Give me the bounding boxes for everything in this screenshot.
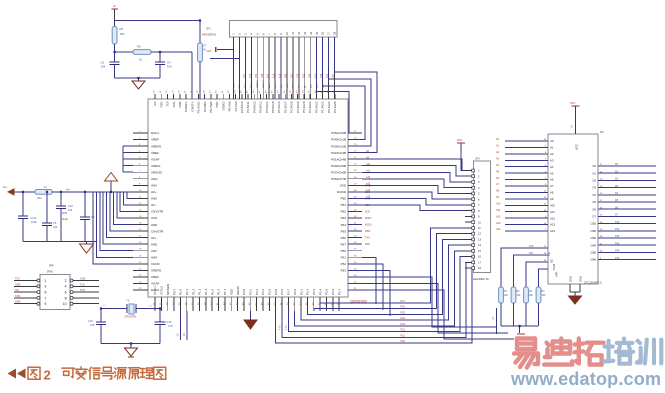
svg-text:TDI: TDI bbox=[239, 84, 241, 88]
svg-text:P3.5A11: P3.5A11 bbox=[246, 101, 250, 113]
svg-text:P2.2: P2.2 bbox=[306, 288, 310, 295]
svg-text:P01ACh4B: P01ACh4B bbox=[331, 157, 346, 161]
svg-text:HEADER11: HEADER11 bbox=[202, 33, 217, 37]
svg-text:P00ACh5B: P00ACh5B bbox=[331, 164, 346, 168]
svg-text:A12: A12 bbox=[496, 215, 501, 218]
svg-text:CNVSTR: CNVSTR bbox=[151, 210, 164, 214]
svg-text:P14: P14 bbox=[243, 73, 246, 78]
svg-text:1K: 1K bbox=[139, 58, 143, 62]
svg-text:P3.5: P3.5 bbox=[274, 288, 278, 295]
svg-text:OE: OE bbox=[550, 259, 554, 263]
svg-text:P0.6A8: P0.6A8 bbox=[228, 101, 232, 111]
svg-text:P36: P36 bbox=[261, 73, 264, 78]
svg-text:P1.4A23: P1.4A23 bbox=[321, 101, 325, 113]
svg-text:+C12: +C12 bbox=[30, 216, 37, 220]
svg-text:VDD: VDD bbox=[215, 101, 219, 108]
svg-text:P06ACh7B: P06ACh7B bbox=[331, 177, 346, 181]
svg-text:U7: U7 bbox=[600, 130, 604, 134]
svg-text:CB4: CB4 bbox=[591, 243, 597, 247]
svg-text:VCC: VCC bbox=[570, 102, 575, 105]
svg-text:P42: P42 bbox=[615, 235, 620, 238]
svg-text:P1.7: P1.7 bbox=[223, 288, 227, 295]
svg-text:JP5: JP5 bbox=[475, 157, 480, 161]
svg-text:A4: A4 bbox=[550, 165, 554, 169]
svg-text:P66: P66 bbox=[341, 236, 347, 240]
svg-text:TCK: TCK bbox=[15, 278, 20, 281]
svg-text:C15: C15 bbox=[88, 319, 93, 323]
svg-text:WR: WR bbox=[281, 84, 283, 88]
svg-text:P51: P51 bbox=[341, 255, 347, 259]
svg-text:P6.5A14: P6.5A14 bbox=[265, 101, 269, 113]
svg-text:A13: A13 bbox=[366, 183, 371, 186]
svg-text:P37: P37 bbox=[332, 73, 335, 78]
svg-text:P15: P15 bbox=[296, 73, 299, 78]
svg-text:P4.5A12: P4.5A12 bbox=[252, 101, 256, 113]
svg-text:O0: O0 bbox=[592, 164, 596, 168]
svg-text:P2.5: P2.5 bbox=[325, 288, 329, 295]
svg-text:DGND: DGND bbox=[221, 101, 225, 111]
svg-text:MISO: MISO bbox=[365, 217, 371, 220]
svg-text:O2: O2 bbox=[592, 179, 596, 183]
svg-text:DGND: DGND bbox=[337, 190, 347, 194]
svg-text:AN4: AN4 bbox=[151, 184, 157, 188]
svg-text:GND: GND bbox=[15, 301, 21, 304]
svg-text:P5.5A13: P5.5A13 bbox=[259, 101, 263, 113]
svg-text:VRGND: VRGND bbox=[151, 170, 163, 174]
svg-text:ANG: ANG bbox=[151, 177, 158, 181]
svg-text:TDO: TDO bbox=[80, 289, 85, 292]
svg-text:10K: 10K bbox=[542, 295, 547, 297]
svg-text:R6: R6 bbox=[137, 45, 141, 49]
svg-text:VGAP: VGAP bbox=[151, 157, 159, 161]
svg-text:P0.4A22: P0.4A22 bbox=[314, 101, 318, 113]
svg-text:P2.7: P2.7 bbox=[337, 288, 341, 295]
svg-text:P3.6: P3.6 bbox=[280, 288, 284, 295]
svg-text:P26: P26 bbox=[401, 306, 406, 309]
svg-text:P62: P62 bbox=[341, 210, 347, 214]
svg-text:P05ACh0B: P05ACh0B bbox=[331, 131, 346, 135]
svg-text:P0.5A15: P0.5A15 bbox=[271, 101, 275, 113]
svg-text:A17: A17 bbox=[267, 73, 270, 78]
svg-text:AND: AND bbox=[151, 242, 158, 246]
svg-text:A13: A13 bbox=[249, 73, 252, 78]
svg-text:2: 2 bbox=[65, 279, 67, 283]
svg-text:CB6: CB6 bbox=[591, 258, 597, 262]
svg-text:O1: O1 bbox=[592, 171, 596, 175]
svg-text:GND: GND bbox=[579, 276, 583, 282]
svg-text:P25: P25 bbox=[255, 73, 258, 78]
svg-text:104: 104 bbox=[101, 65, 106, 69]
svg-text:AV+: AV+ bbox=[151, 190, 157, 194]
svg-text:27P: 27P bbox=[90, 323, 95, 327]
svg-text:10K: 10K bbox=[504, 295, 509, 297]
svg-text:A12: A12 bbox=[366, 176, 371, 179]
svg-text:P1.1: P1.1 bbox=[185, 288, 189, 295]
svg-text:A8: A8 bbox=[550, 191, 554, 195]
svg-text:GND: GND bbox=[569, 276, 573, 282]
svg-text:P2.1: P2.1 bbox=[299, 288, 303, 295]
svg-text:P3.7: P3.7 bbox=[287, 288, 291, 295]
svg-text:P3.6ALE: P3.6ALE bbox=[197, 102, 201, 114]
svg-text:P1.5: P1.5 bbox=[210, 288, 214, 295]
svg-text:TDO: TDO bbox=[159, 101, 163, 108]
svg-text:CNVSTR: CNVSTR bbox=[151, 229, 164, 233]
svg-text:A1: A1 bbox=[550, 146, 554, 150]
svg-text:A11: A11 bbox=[496, 209, 501, 212]
svg-text:P60: P60 bbox=[341, 197, 347, 201]
svg-text:MOSI: MOSI bbox=[365, 224, 372, 227]
svg-text:P45: P45 bbox=[615, 257, 620, 260]
svg-text:P41: P41 bbox=[615, 228, 620, 231]
svg-text:4: 4 bbox=[65, 285, 67, 289]
svg-text:A15: A15 bbox=[366, 196, 371, 199]
svg-text:O3: O3 bbox=[592, 186, 596, 190]
svg-text:R5: R5 bbox=[120, 27, 124, 31]
svg-text:VPP: VPP bbox=[555, 272, 559, 277]
svg-text:P1.4: P1.4 bbox=[204, 288, 208, 295]
svg-text:VREF: VREF bbox=[151, 151, 159, 155]
svg-text:TCK: TCK bbox=[80, 283, 85, 286]
svg-text:VREF1: VREF1 bbox=[151, 164, 161, 168]
svg-text:O5: O5 bbox=[592, 200, 596, 204]
svg-text:Y2: Y2 bbox=[126, 299, 130, 303]
svg-text:TDO: TDO bbox=[233, 83, 235, 88]
svg-text:P25: P25 bbox=[401, 311, 406, 314]
svg-text:CRYSTAL: CRYSTAL bbox=[125, 315, 138, 319]
svg-text:A14: A14 bbox=[496, 228, 501, 231]
svg-text:104: 104 bbox=[68, 208, 73, 212]
svg-text:P3.0: P3.0 bbox=[242, 288, 246, 295]
svg-text:P05: P05 bbox=[285, 73, 288, 78]
svg-text:C16: C16 bbox=[167, 320, 172, 324]
svg-text:P1.6A9: P1.6A9 bbox=[234, 101, 238, 111]
svg-text:P07ACh6B: P07ACh6B bbox=[331, 170, 346, 174]
svg-text:VDD: VDD bbox=[229, 288, 233, 295]
svg-text:TX0: TX0 bbox=[365, 237, 370, 240]
svg-text:DAC1: DAC1 bbox=[151, 131, 159, 135]
svg-text:VCC: VCC bbox=[575, 144, 579, 150]
svg-text:P2.6: P2.6 bbox=[331, 288, 335, 295]
svg-text:JP1: JP1 bbox=[206, 27, 211, 31]
svg-text:TCK: TCK bbox=[245, 83, 247, 88]
svg-text:P2.4A17: P2.4A17 bbox=[283, 101, 287, 113]
svg-text:9: 9 bbox=[45, 302, 47, 306]
svg-text:A19: A19 bbox=[279, 73, 282, 78]
svg-text:P26: P26 bbox=[308, 73, 311, 78]
svg-text:AN0: AN0 bbox=[151, 197, 157, 201]
svg-text:P2.4: P2.4 bbox=[318, 288, 322, 295]
svg-text:A11: A11 bbox=[366, 169, 371, 172]
svg-text:27P: 27P bbox=[168, 324, 173, 328]
svg-text:C10: C10 bbox=[68, 204, 73, 208]
svg-text:P04ACh1B: P04ACh1B bbox=[331, 138, 346, 142]
svg-text:10uF: 10uF bbox=[31, 220, 37, 224]
svg-text:XTAL2: XTAL2 bbox=[160, 286, 164, 295]
svg-text:O6: O6 bbox=[592, 207, 596, 211]
svg-text:HEADER 18: HEADER 18 bbox=[473, 277, 489, 281]
svg-text:GND: GND bbox=[15, 283, 21, 286]
svg-text:P17: P17 bbox=[529, 252, 534, 255]
svg-text:P65: P65 bbox=[341, 229, 347, 233]
svg-text:P67: P67 bbox=[341, 242, 347, 246]
svg-text:ACD: ACD bbox=[151, 216, 158, 220]
svg-text:A2: A2 bbox=[550, 152, 554, 156]
svg-text:P1.5A16: P1.5A16 bbox=[277, 101, 281, 113]
svg-text:AV+: AV+ bbox=[151, 236, 157, 240]
svg-text:P3.3A25: P3.3A25 bbox=[333, 101, 337, 113]
svg-text:CANRX: CANRX bbox=[256, 80, 259, 88]
svg-text:A14: A14 bbox=[550, 229, 555, 233]
svg-text:C7: C7 bbox=[203, 44, 207, 48]
svg-text:CB2: CB2 bbox=[591, 229, 597, 233]
svg-text:A21: A21 bbox=[291, 73, 294, 78]
svg-text:P3.4: P3.4 bbox=[268, 288, 272, 295]
svg-text:RD: RD bbox=[275, 84, 277, 88]
svg-text:CANRX: CANRX bbox=[184, 102, 188, 113]
svg-text:CANTX: CANTX bbox=[190, 102, 194, 112]
svg-text:P6.4A21: P6.4A21 bbox=[308, 101, 312, 113]
svg-text:P1.3: P1.3 bbox=[198, 288, 202, 295]
svg-text:2: 2 bbox=[44, 368, 51, 383]
svg-text:P5.4A20: P5.4A20 bbox=[302, 101, 306, 113]
svg-text:A7: A7 bbox=[550, 184, 554, 188]
svg-text:K15: K15 bbox=[273, 73, 276, 78]
svg-text:10K: 10K bbox=[517, 295, 522, 297]
svg-text:P3.4A18: P3.4A18 bbox=[290, 101, 294, 113]
svg-text:JTAG: JTAG bbox=[47, 269, 53, 273]
svg-text:PGM: PGM bbox=[552, 264, 556, 270]
svg-text:P4.6RD: P4.6RD bbox=[203, 101, 207, 112]
svg-text:A10: A10 bbox=[550, 203, 555, 207]
svg-text:VREF: VREF bbox=[151, 275, 159, 279]
svg-text:P40: P40 bbox=[615, 221, 620, 224]
svg-text:P52: P52 bbox=[341, 262, 347, 266]
svg-text:P23: P23 bbox=[401, 323, 406, 326]
svg-text:A3: A3 bbox=[550, 158, 554, 162]
svg-text:AN0: AN0 bbox=[151, 249, 157, 253]
svg-text:MONEN: MONEN bbox=[166, 284, 170, 295]
svg-text:TMS: TMS bbox=[178, 102, 182, 108]
svg-text:P3.2: P3.2 bbox=[255, 288, 259, 295]
svg-text:P64: P64 bbox=[341, 223, 347, 227]
svg-text:10K: 10K bbox=[529, 295, 534, 297]
svg-text:P2.3: P2.3 bbox=[312, 288, 316, 295]
svg-text:O4: O4 bbox=[592, 193, 596, 197]
svg-text:P44: P44 bbox=[615, 250, 620, 253]
svg-text:10K: 10K bbox=[120, 32, 125, 36]
svg-text:TDI: TDI bbox=[15, 289, 19, 292]
svg-text:O7: O7 bbox=[592, 215, 596, 219]
svg-text:TDI: TDI bbox=[166, 101, 170, 106]
svg-text:P03ACh2B: P03ACh2B bbox=[331, 144, 346, 148]
svg-text:P21: P21 bbox=[401, 334, 406, 337]
svg-text:A13: A13 bbox=[550, 223, 555, 227]
svg-text:P16: P16 bbox=[529, 245, 534, 248]
svg-text:CANTX: CANTX bbox=[262, 80, 265, 88]
svg-text:C5: C5 bbox=[53, 221, 57, 225]
svg-text:EA: EA bbox=[153, 102, 157, 106]
svg-text:P1.2: P1.2 bbox=[191, 288, 195, 295]
svg-text:P22: P22 bbox=[401, 329, 406, 332]
svg-text:VDD: VDD bbox=[340, 184, 347, 188]
svg-text:VCC: VCC bbox=[457, 139, 462, 142]
svg-text:P3.3: P3.3 bbox=[261, 288, 265, 295]
svg-text:P61: P61 bbox=[341, 203, 347, 207]
svg-text:TMS: TMS bbox=[15, 295, 20, 298]
svg-text:P1.0: P1.0 bbox=[179, 288, 183, 295]
svg-text:P20: P20 bbox=[401, 340, 406, 343]
svg-text:7: 7 bbox=[45, 296, 47, 300]
svg-text:VREF: VREF bbox=[151, 138, 159, 142]
svg-text:VGND: VGND bbox=[151, 262, 161, 266]
svg-text:A11: A11 bbox=[550, 210, 555, 214]
svg-text:A6: A6 bbox=[550, 178, 554, 182]
svg-text:CB5: CB5 bbox=[591, 251, 597, 255]
svg-text:GND: GND bbox=[80, 278, 86, 281]
svg-text:A10: A10 bbox=[496, 203, 501, 206]
svg-text:P53: P53 bbox=[341, 269, 347, 273]
svg-text:P63: P63 bbox=[341, 216, 347, 220]
svg-text:A12: A12 bbox=[550, 216, 555, 220]
svg-text:CB3: CB3 bbox=[591, 236, 597, 240]
svg-text:AV+: AV+ bbox=[3, 186, 8, 189]
svg-text:SCK: SCK bbox=[365, 210, 370, 213]
svg-text:NSS: NSS bbox=[365, 230, 370, 233]
svg-text:P24: P24 bbox=[401, 317, 406, 320]
svg-text:ANG: ANG bbox=[151, 255, 158, 259]
svg-text:5: 5 bbox=[45, 291, 47, 295]
svg-text:XTAL1: XTAL1 bbox=[153, 286, 157, 295]
svg-text:R12: R12 bbox=[37, 196, 42, 200]
svg-text:AV-: AV- bbox=[151, 203, 156, 207]
svg-text:P2.3A24: P2.3A24 bbox=[327, 101, 331, 113]
svg-text:6: 6 bbox=[65, 291, 67, 295]
svg-text:VREFD: VREFD bbox=[151, 269, 162, 273]
svg-text:DGND: DGND bbox=[236, 285, 240, 295]
svg-text:A10: A10 bbox=[366, 163, 371, 166]
svg-text:P0.7WR: P0.7WR bbox=[209, 101, 213, 113]
svg-text:P50: P50 bbox=[341, 249, 347, 253]
svg-text:A5: A5 bbox=[550, 171, 554, 175]
svg-text:VD3: VD3 bbox=[207, 50, 212, 53]
svg-text:4.7K: 4.7K bbox=[285, 325, 288, 330]
svg-text:RX0: RX0 bbox=[365, 243, 370, 246]
svg-text:P27: P27 bbox=[401, 300, 406, 303]
svg-text:P3.1: P3.1 bbox=[248, 288, 252, 295]
svg-text:P02ACh3B: P02ACh3B bbox=[331, 151, 346, 155]
svg-text:P0.7: P0.7 bbox=[172, 288, 176, 295]
svg-text:104: 104 bbox=[53, 225, 58, 229]
svg-text:A14: A14 bbox=[366, 189, 371, 192]
svg-text:P43: P43 bbox=[615, 242, 620, 245]
svg-text:104: 104 bbox=[167, 65, 172, 69]
svg-text:P1.6: P1.6 bbox=[217, 288, 221, 295]
svg-text:GND: GND bbox=[293, 83, 295, 88]
svg-text:VDD: VDD bbox=[287, 83, 289, 88]
svg-text:TCK: TCK bbox=[172, 102, 176, 108]
svg-text:AV+: AV+ bbox=[66, 189, 71, 192]
svg-text:A23: A23 bbox=[302, 73, 305, 78]
svg-text:3: 3 bbox=[45, 285, 47, 289]
svg-text:A9: A9 bbox=[550, 197, 554, 201]
svg-text:CB1: CB1 bbox=[591, 222, 597, 226]
svg-text:A13: A13 bbox=[496, 222, 501, 225]
svg-text:1: 1 bbox=[45, 279, 47, 283]
svg-text:A0: A0 bbox=[550, 139, 554, 143]
svg-text:10: 10 bbox=[63, 302, 67, 306]
svg-text:VGAP: VGAP bbox=[151, 282, 159, 286]
svg-text:TMS: TMS bbox=[251, 83, 253, 88]
svg-text:ALE: ALE bbox=[268, 83, 271, 88]
svg-text:AND: AND bbox=[151, 223, 158, 227]
svg-text:VREFD: VREFD bbox=[151, 144, 162, 148]
svg-text:4.7K: 4.7K bbox=[279, 325, 282, 330]
svg-text:ALED: ALED bbox=[62, 218, 68, 221]
svg-text:P2.0: P2.0 bbox=[293, 288, 297, 295]
svg-text:P4.4A19: P4.4A19 bbox=[296, 101, 300, 113]
svg-text:www.edatop.com: www.edatop.com bbox=[510, 369, 661, 388]
svg-text:27C1024PLC: 27C1024PLC bbox=[584, 281, 603, 285]
svg-text:P2.6A10: P2.6A10 bbox=[240, 101, 244, 113]
svg-text:8: 8 bbox=[65, 296, 67, 300]
svg-text:JP6: JP6 bbox=[49, 264, 54, 268]
svg-text:AOB: AOB bbox=[62, 212, 67, 215]
